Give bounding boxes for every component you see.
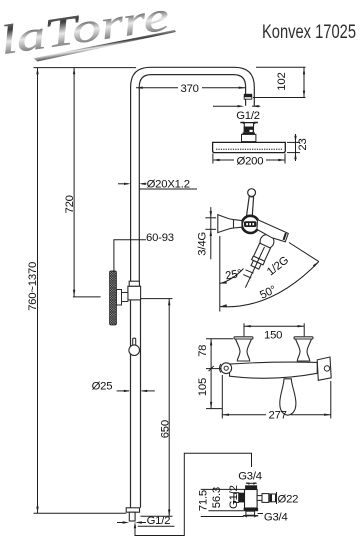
left trumpet [234, 337, 253, 361]
svg-text:760~1370: 760~1370 [27, 262, 39, 311]
svg-text:G1/2: G1/2 [228, 485, 240, 509]
union nut on right pipe [244, 94, 252, 99]
dim 370 [136, 87, 245, 89]
handshower (hatched handle) [110, 271, 117, 325]
hose knob on column [129, 338, 140, 355]
arc 25 [220, 269, 244, 284]
svg-text:3/4G: 3/4G [197, 232, 209, 256]
connector body [234, 483, 277, 518]
svg-text:G1/2: G1/2 [236, 110, 260, 122]
dim 78 [206, 339, 233, 409]
svg-text:G3/4: G3/4 [264, 512, 288, 524]
outlet cylinder [251, 243, 271, 269]
dim 720 [73, 68, 101, 297]
dim 102 [253, 67, 306, 97]
column slider block [128, 281, 141, 300]
dim 105 [206, 408, 222, 410]
svg-text:102: 102 [276, 72, 288, 90]
svg-text:Ø22: Ø22 [278, 493, 299, 505]
svg-text:23: 23 [297, 138, 309, 150]
dim O25 [117, 390, 155, 392]
dim 3/4G [205, 207, 216, 259]
svg-text:50°: 50° [258, 284, 278, 302]
dim O200 [213, 154, 285, 164]
column bottom collar and stub [126, 508, 139, 521]
centerline outlet [245, 247, 264, 288]
svg-text:G1/2: G1/2 [147, 515, 171, 527]
wire arch pipe [131, 67, 255, 290]
spout tip marks [284, 233, 286, 240]
leader from spout tip [289, 243, 319, 262]
arc 50 [220, 262, 319, 307]
svg-text:Ø25: Ø25 [92, 381, 113, 393]
svg-text:105: 105 [197, 378, 209, 396]
body bar [230, 362, 318, 378]
svg-text:Ø200: Ø200 [237, 155, 264, 167]
dim 150 [244, 323, 304, 336]
dim 760~1370 [34, 68, 137, 514]
svg-text:720: 720 [64, 195, 76, 213]
logo laTorre [0, 0, 177, 67]
left end cap [221, 363, 232, 374]
spout arm [257, 220, 288, 242]
right bracket plate [317, 357, 331, 380]
lower column tube [131, 300, 141, 508]
svg-text:G3/4: G3/4 [238, 471, 262, 483]
svg-text:25°: 25° [224, 268, 242, 283]
dims 71.5 56.3 G1/2 rotated [201, 489, 245, 516]
svg-text:650: 650 [159, 420, 171, 438]
ball joint dome [260, 235, 274, 249]
valve knob [242, 216, 259, 233]
svg-text:370: 370 [181, 83, 199, 95]
svg-text:56.3: 56.3 [211, 487, 223, 508]
shower head [213, 142, 286, 152]
wall flange [218, 215, 242, 233]
right trumpet [294, 337, 313, 361]
svg-text:60-93: 60-93 [146, 232, 174, 244]
head fitting (wall bar + stub + nut) [240, 122, 258, 142]
svg-text:Konvex 17025: Konvex 17025 [262, 21, 356, 43]
dim G1/2 top arrows at pipe end [213, 105, 260, 107]
svg-text:Ø20X1.2: Ø20X1.2 [147, 178, 190, 190]
dim 23 [287, 134, 300, 161]
svg-text:78: 78 [197, 345, 209, 357]
dim G1/2 bottom arrows [117, 522, 146, 524]
dim 650 [141, 299, 173, 517]
handshower holder clamp [116, 290, 128, 306]
vertical reference line [219, 236, 221, 312]
svg-text:277: 277 [269, 409, 287, 421]
dim O20X1.2 [118, 184, 197, 189]
svg-text:laTorre: laTorre [0, 0, 172, 63]
handle below [280, 379, 296, 415]
svg-text:150: 150 [264, 329, 282, 341]
svg-text:71.5: 71.5 [198, 490, 210, 511]
lever handle [247, 189, 256, 216]
connector leader [135, 453, 252, 535]
svg-text:1/2G: 1/2G [265, 254, 291, 278]
dim 277 [222, 375, 330, 418]
